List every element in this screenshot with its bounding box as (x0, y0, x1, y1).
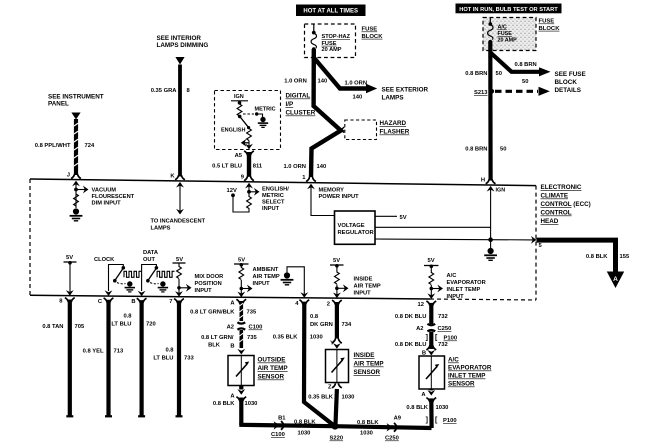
ground (ECC internal) (484, 240, 497, 261)
arrow: a/c evaporator inlet temp input (431, 285, 443, 293)
value label 0.8 PPL/WHT 724 (35, 143, 95, 149)
wire 8 source arrow (175, 57, 184, 65)
wire: 0.8 LT GRN/BLK 735 (below C100, hatched) (239, 330, 243, 348)
wire: 1.0 ORN 140 from fuse to terminal 1 (with hazard flasher tap) (311, 49, 341, 177)
wire 724 source arrow (71, 113, 80, 120)
svg-text:C250: C250 (438, 326, 452, 332)
wire: 0.8 PPL/WHT 724 (hatched) to terminal J (74, 119, 78, 175)
svg-text:50: 50 (496, 71, 502, 77)
value label 0.8 LT BLU 720 (111, 314, 155, 328)
svg-text:0.8: 0.8 (123, 314, 132, 320)
arrow: inside air temp input (337, 284, 349, 292)
svg-text:SEE INTERIOR: SEE INTERIOR (157, 35, 202, 42)
node: ground junction (488, 237, 493, 242)
value label STOP-HAZ FUSE 20 AMP (322, 34, 351, 53)
wire: regulator to terminal 5 output (375, 238, 533, 241)
svg-text:713: 713 (114, 349, 124, 355)
pin A (outside sensor) (230, 389, 246, 401)
label: DIGITAL I/P CLUSTER (286, 93, 316, 117)
value label 0.8 BLK 1030 (outside sensor) (213, 401, 258, 407)
svg-text:1030: 1030 (360, 431, 373, 437)
svg-text:HOT IN RUN, BULB TEST OR START: HOT IN RUN, BULB TEST OR START (459, 7, 558, 13)
feed header HOT AT ALL TIMES (296, 5, 366, 17)
wire: 0.8 DK BLU 732 (below C250) (429, 332, 433, 350)
node mix door (177, 286, 181, 290)
fuse block box (a/c, dashed, shaded) (483, 18, 536, 51)
node: english contact (247, 126, 250, 129)
svg-text:SENSOR: SENSOR (448, 381, 475, 388)
terminal A (ambient) (230, 299, 246, 306)
direction arrow on select wire (241, 139, 249, 147)
value label 0.35 BLK 1030 (pin Z) (308, 395, 354, 401)
resistor on J input (74, 194, 79, 206)
svg-text:]: ] (426, 335, 428, 342)
label FUSE BLOCK (right) (539, 19, 561, 32)
svg-text:732: 732 (438, 342, 448, 348)
svg-text:FUSE: FUSE (362, 27, 378, 33)
svg-text:0.8 BRN: 0.8 BRN (465, 71, 487, 77)
ECC control head box: left border (dashed) (29, 179, 31, 295)
node: switch common (238, 101, 242, 105)
arrow (S213 to details) (539, 87, 550, 96)
wire terminal K to incandescent lamps (double arrow) (176, 185, 184, 215)
svg-text:735: 735 (247, 335, 257, 341)
terminal 4 (295, 300, 309, 307)
svg-text:TO INCANDESCENT: TO INCANDESCENT (151, 219, 206, 225)
ign feed bar (231, 101, 248, 104)
resistor inside air (335, 266, 340, 295)
svg-text:1.0 ORN: 1.0 ORN (283, 164, 306, 170)
value label 0.8 LT BLU 733 (153, 348, 194, 362)
wire: 0.8 LT BLU 733 (177, 301, 181, 418)
label: MIX DOOR POSITION INPUT (195, 274, 224, 294)
svg-text:DETAILS: DETAILS (555, 87, 581, 94)
svg-text:FUSE: FUSE (539, 19, 555, 25)
wire resistor to terminal 9 (248, 186, 250, 197)
arrow: english/metric select input (249, 188, 260, 196)
wire: 0.8 LT GRN/BLK 735 (hatched) (239, 301, 243, 321)
svg-text:]: ] (426, 417, 428, 424)
wire: 1.0 ORN branch to exterior lamps (314, 58, 367, 89)
svg-text:0.8 DK BLU: 0.8 DK BLU (395, 314, 427, 320)
svg-text:1030: 1030 (342, 395, 355, 401)
svg-text:S220: S220 (330, 436, 344, 442)
arrow: mix door position input (179, 284, 192, 292)
svg-text:155: 155 (620, 254, 630, 260)
node evaporator (430, 287, 434, 291)
svg-text:0.8 LT GRN/: 0.8 LT GRN/ (201, 335, 234, 341)
svg-text:POSITION: POSITION (195, 281, 222, 287)
svg-text:SENSOR: SENSOR (258, 374, 285, 381)
fuse A/C FUSE 20 AMP (488, 18, 493, 44)
wire: 0.8 BRN 50 from fuse to terminal H (488, 42, 493, 181)
value label 1.0 ORN 140 (lower) (283, 164, 326, 170)
svg-text:A5: A5 (235, 153, 243, 159)
svg-text:LAMPS: LAMPS (151, 226, 171, 232)
svg-text:CLOCK: CLOCK (94, 257, 115, 263)
svg-text:140: 140 (317, 164, 327, 170)
svg-text:1030: 1030 (298, 431, 311, 437)
svg-text:A/C: A/C (448, 357, 459, 364)
svg-text:ELECTRONIC: ELECTRONIC (541, 184, 582, 191)
svg-text:0.8 BLK: 0.8 BLK (213, 401, 235, 407)
svg-text:EVAPORATOR: EVAPORATOR (448, 365, 492, 372)
svg-text:C250: C250 (385, 436, 399, 442)
svg-text:734: 734 (342, 322, 352, 328)
svg-text:0.8 LT GRN/BLK: 0.8 LT GRN/BLK (190, 310, 235, 316)
svg-text:50: 50 (522, 79, 528, 85)
clock signal source (105, 265, 142, 297)
pin B (evaporator sensor) (422, 345, 436, 356)
svg-text:1030: 1030 (436, 405, 449, 411)
data out signal source (138, 265, 175, 297)
label: INSIDE AIR TEMP SENSOR (354, 352, 384, 376)
svg-text:732: 732 (438, 314, 448, 320)
svg-text:5V: 5V (428, 258, 435, 264)
svg-text:CONTROL (ECC): CONTROL (ECC) (541, 201, 591, 208)
wire: terminal H down to ground node (490, 187, 492, 240)
svg-text:Z: Z (328, 385, 332, 391)
arrow to see fuse block details (539, 67, 551, 76)
svg-text:CLIMATE: CLIMATE (541, 193, 569, 200)
svg-text:IGN: IGN (234, 94, 244, 100)
value label 0.8 BRN 50 (lower) (465, 147, 506, 153)
svg-text:INPUT: INPUT (253, 281, 271, 287)
resistor ambient (239, 265, 244, 294)
5V supply (mix door) (173, 257, 186, 263)
svg-text:AIR TEMP: AIR TEMP (354, 284, 381, 290)
svg-text:DIGITAL: DIGITAL (286, 93, 311, 100)
svg-text:CONTROL: CONTROL (541, 210, 572, 217)
wire: 0.8 BLK 1030 from outside sensor (239, 386, 243, 425)
svg-text:20 AMP: 20 AMP (322, 47, 342, 53)
a/c evaporator inlet temp sensor (419, 356, 445, 389)
wire: regulator to ignition feed (375, 226, 491, 228)
label: SEE FUSE BLOCK DETAILS (555, 71, 586, 94)
label: SEE EXTERIOR LAMPS (382, 87, 429, 102)
svg-text:5V: 5V (333, 258, 340, 264)
arrow to see exterior lamps (366, 84, 377, 93)
5V supply (ambient) (234, 258, 249, 267)
svg-text:A/C: A/C (447, 273, 457, 279)
svg-text:SENSOR: SENSOR (354, 369, 381, 376)
value label 0.8 DK BLU 732 (395, 314, 448, 320)
svg-text:140: 140 (318, 79, 328, 85)
svg-text:INSIDE: INSIDE (354, 352, 375, 359)
wire: 0.8 BLK 1030 from evaporator sensor to splice (429, 389, 434, 428)
node ambient (240, 287, 244, 291)
svg-text:HAZARD: HAZARD (380, 120, 407, 127)
wire: 0.8 BLK 155 (thick, exits right) (537, 240, 616, 272)
connector horns at hazard flasher tap (341, 127, 344, 133)
resistor below english contact (247, 129, 252, 141)
value label 0.5 LT BLU 811 (212, 164, 263, 170)
svg-text:ENGLISH/: ENGLISH/ (262, 187, 289, 193)
svg-text:LT BLU: LT BLU (111, 322, 131, 328)
svg-text:SELECT: SELECT (262, 200, 285, 206)
svg-text:CLUSTER: CLUSTER (286, 110, 316, 117)
arrow at terminal A (237, 292, 245, 298)
value label 0.8 YEL 713 (83, 349, 124, 355)
svg-text:12V: 12V (227, 188, 237, 194)
svg-text:0.8 YEL: 0.8 YEL (83, 349, 104, 355)
svg-text:AIR TEMP: AIR TEMP (258, 365, 288, 372)
arrow at terminal 2 (333, 293, 341, 299)
wire metric contact to ground (257, 114, 263, 117)
5V supply (evaporator) (424, 258, 439, 268)
svg-text:0.8 BRN: 0.8 BRN (465, 147, 487, 153)
resistor on english/metric select input (247, 197, 252, 209)
svg-text:BLOCK: BLOCK (539, 26, 561, 32)
svg-text:SEE EXTERIOR: SEE EXTERIOR (382, 87, 429, 94)
label FUSE BLOCK (left) (362, 27, 384, 40)
svg-text:5V: 5V (66, 255, 73, 261)
svg-text:STOP-HAZ: STOP-HAZ (322, 34, 351, 40)
svg-text:A/C: A/C (498, 25, 507, 31)
svg-text:C100: C100 (249, 325, 263, 331)
svg-text:VOLTAGE: VOLTAGE (338, 223, 365, 229)
connector C100 cavity A2 (in-line) (227, 322, 263, 330)
wire 12V hook to select resistor (233, 194, 249, 212)
value label 0.8 BLK 155 (586, 254, 630, 260)
svg-text:5V: 5V (238, 258, 245, 264)
arrow at terminal 12 (427, 293, 435, 299)
svg-text:S213: S213 (474, 90, 488, 96)
svg-text:1030: 1030 (310, 335, 323, 341)
svg-text:SEE INSTRUMENT: SEE INSTRUMENT (48, 94, 104, 101)
wire: 0.35 GRA 8 to terminal K (178, 65, 182, 177)
label: OUTSIDE AIR TEMP SENSOR (258, 357, 288, 381)
splice S220 (330, 423, 344, 442)
value label 0.8 DK GRN 734 (310, 314, 352, 328)
label: AMBIENT AIR TEMP INPUT (253, 267, 280, 287)
svg-text:0.8 TAN: 0.8 TAN (42, 324, 63, 330)
svg-text:BLK: BLK (208, 343, 221, 349)
svg-text:AIR TEMP: AIR TEMP (253, 274, 280, 280)
terminal H (481, 178, 496, 192)
english/metric switch assembly box (dashed) (215, 91, 281, 150)
svg-text:LAMPS: LAMPS (382, 95, 404, 102)
node: switch pivot (238, 115, 242, 119)
value label 0.8 LT GRN/BLK 735 (190, 310, 257, 316)
terminal 2 (327, 300, 342, 307)
svg-text:DIM INPUT: DIM INPUT (92, 201, 122, 207)
connector C250 cavity A2 (in-line) (416, 324, 451, 332)
svg-text:724: 724 (85, 143, 95, 149)
value label 0.35 GRA 8 (151, 88, 191, 94)
wire end foot (713) (105, 415, 112, 417)
svg-text:INPUT: INPUT (354, 291, 372, 297)
svg-text:H: H (481, 178, 485, 184)
svg-text:0.8 PPL/WHT: 0.8 PPL/WHT (35, 143, 71, 149)
label: TO INCANDESCENT LAMPS (151, 219, 206, 232)
terminal 8 (59, 298, 74, 305)
svg-text:ENGLISH: ENGLISH (221, 128, 245, 134)
pin Y (inside sensor) (330, 339, 342, 349)
svg-text:0.8 BLK: 0.8 BLK (357, 420, 379, 426)
svg-text:REGULATOR: REGULATOR (338, 230, 375, 236)
terminal 7 (169, 299, 184, 305)
label: A/C EVAPORATOR INLET TEMP SENSOR (448, 357, 492, 388)
hazard flasher box (dashed) (345, 120, 377, 140)
svg-text:P100: P100 (444, 336, 458, 342)
terminal 1 (302, 175, 316, 189)
wire end foot (720) (138, 415, 145, 417)
arrow at terminal 7 (175, 291, 183, 297)
wire end foot (705) (66, 415, 73, 417)
wire terminal 1 to voltage regulator (311, 187, 335, 216)
wire: 0.8 BLK 1030 ground bus (bottom) (239, 425, 431, 428)
svg-text:B: B (131, 299, 135, 305)
svg-text:0.35 GRA: 0.35 GRA (151, 88, 178, 94)
node select input (247, 190, 251, 194)
arrow at terminal 5 exit (531, 236, 537, 244)
voltage regulator U1 (335, 211, 376, 244)
svg-text:0.35 BLK: 0.35 BLK (273, 335, 299, 341)
svg-text:PANEL: PANEL (48, 101, 69, 108)
connector C250 cavity A9 (in-line, bus) (385, 416, 402, 442)
svg-text:705: 705 (75, 324, 85, 330)
terminal J (67, 172, 81, 186)
svg-text:7: 7 (169, 299, 172, 305)
value label A/C FUSE 20 AMP (498, 25, 518, 44)
fuse block box (stop-haz, dashed) (305, 24, 356, 58)
svg-text:INLET TEMP: INLET TEMP (448, 373, 485, 380)
wire: 0.8 YEL 713 (106, 300, 110, 417)
svg-text:AMBIENT: AMBIENT (253, 267, 279, 273)
wire: regulator 5V output (375, 215, 397, 217)
ECC control head box: bottom border (30, 295, 430, 299)
svg-text:IGN: IGN (496, 188, 506, 194)
svg-text:SEE FUSE: SEE FUSE (555, 71, 586, 78)
svg-text:A2: A2 (227, 325, 234, 331)
svg-text:0.8: 0.8 (165, 348, 174, 354)
svg-text:I/P: I/P (286, 101, 294, 108)
value label 0.8 BRN (branch) (515, 62, 537, 85)
svg-text:MEMORY: MEMORY (319, 188, 345, 194)
svg-text:LT BLU: LT BLU (153, 356, 173, 362)
wire: 0.8 BRN branch to fuse block details (490, 53, 539, 72)
ground return hook to terminal 4 (281, 267, 309, 298)
terminal 12 (418, 301, 437, 308)
svg-text:A2: A2 (416, 326, 423, 332)
svg-text:0.8: 0.8 (310, 314, 319, 320)
svg-text:0.8 DK BLU: 0.8 DK BLU (395, 342, 427, 348)
resistor in switch leg (237, 104, 242, 116)
value label 0.8 BLK 1030 (right bus) (357, 420, 379, 437)
svg-text:INPUT: INPUT (447, 294, 465, 300)
svg-text:FUSE: FUSE (498, 31, 513, 37)
svg-text:DK GRN: DK GRN (310, 322, 333, 328)
ECC control head box: top border (30, 179, 536, 186)
resistor evaporator (429, 266, 434, 295)
svg-text:12: 12 (418, 302, 424, 308)
svg-text:B: B (230, 344, 234, 350)
connector skirt at assembly exit (244, 151, 254, 156)
label: SEE INSTRUMENT PANEL (48, 94, 104, 108)
resistor mix door (177, 263, 182, 293)
wire from english leg to box edge (248, 141, 250, 150)
svg-text:0.8 BRN: 0.8 BRN (515, 62, 537, 68)
svg-text:0.5 LT BLU: 0.5 LT BLU (212, 164, 242, 170)
connector P100 pass-through (upper) (426, 335, 457, 342)
svg-text:50: 50 (500, 147, 506, 153)
svg-text:733: 733 (184, 356, 194, 362)
wire end foot (733) (176, 415, 183, 417)
value label 0.8 BLK 1030 (evap) (406, 405, 448, 411)
value label 0.8 DK BLU 732 (lower) (395, 342, 448, 348)
svg-text:0.8 BLK: 0.8 BLK (586, 254, 608, 260)
svg-text:5V: 5V (400, 215, 407, 221)
feed header HOT IN RUN, BULB TEST OR START (456, 4, 562, 14)
svg-text:140: 140 (353, 95, 363, 101)
arrow A (to ground distribution) (607, 272, 624, 289)
svg-text:C100: C100 (271, 432, 285, 438)
label: VACUUM FLOURESCENT DIM INPUT (92, 188, 135, 207)
svg-text:BLOCK: BLOCK (555, 79, 578, 86)
svg-text:INPUT: INPUT (262, 206, 280, 212)
connector P100 pass-through (lower) (426, 417, 457, 424)
svg-text:1.0 ORN: 1.0 ORN (345, 81, 368, 87)
svg-text:A: A (613, 276, 618, 283)
label: ELECTRONIC CLIMATE CONTROL (ECC) CONTROL HEAD (541, 184, 591, 225)
svg-text:LAMPS DIMMING: LAMPS DIMMING (157, 42, 209, 49)
arrow at assembly exit (245, 144, 253, 150)
svg-text:0.8 BLK: 0.8 BLK (294, 420, 316, 426)
pin B (outside sensor) (230, 344, 245, 355)
label: A/C EVAPORATOR INLET TEMP INPUT (447, 273, 486, 300)
terminal 9 (241, 174, 254, 188)
svg-text:A9: A9 (394, 416, 402, 422)
value label 0.8 BRN 50 (upper) (465, 71, 502, 77)
dashed wire from S213 to fuse block details (495, 90, 538, 93)
5V supply (terminal 8) (64, 255, 77, 265)
svg-text:INLET TEMP: INLET TEMP (447, 287, 481, 293)
dashed link to metric contact (243, 113, 254, 115)
node 12V (231, 193, 235, 197)
value label 0.8 BLK 1030 (left bus) (294, 420, 316, 437)
wire: 0.5 LT BLU 811 to terminal 9 (247, 152, 251, 177)
ECC control head box: right border (dashed) (535, 186, 537, 300)
svg-text:FLASHER: FLASHER (380, 129, 410, 136)
svg-text:BLOCK: BLOCK (362, 34, 384, 40)
label: SEE INTERIOR LAMPS DIMMING (157, 35, 209, 49)
svg-text:P100: P100 (443, 418, 457, 424)
svg-text:J: J (67, 172, 70, 178)
svg-text:POWER INPUT: POWER INPUT (319, 194, 360, 200)
ground (metric) (258, 117, 268, 128)
pin Z (inside sensor) (328, 383, 342, 390)
value label 1.0 ORN 140 (upper) (284, 79, 327, 85)
label DATA OUT (143, 250, 158, 263)
label: INSIDE AIR TEMP INPUT (354, 277, 381, 297)
terminal B (131, 298, 146, 305)
terminal C (98, 298, 114, 305)
svg-text:0.8 BLK: 0.8 BLK (406, 405, 428, 411)
svg-text:INPUT: INPUT (195, 288, 213, 294)
svg-text:FLOURESCENT: FLOURESCENT (92, 194, 135, 200)
node: metric contact (255, 112, 258, 115)
label: ENGLISH/ METRIC SELECT INPUT (262, 187, 289, 213)
switch arm to ENGLISH contact (240, 116, 248, 126)
connector C100 cavity B1 (in-line, bus) (271, 416, 286, 439)
svg-text:0.35 BLK: 0.35 BLK (308, 395, 334, 401)
svg-text:5V: 5V (176, 257, 183, 263)
svg-text:B1: B1 (278, 416, 286, 422)
pin A (evaporator sensor) (421, 390, 436, 402)
wire: 0.8 DK GRN 734 (335, 302, 339, 339)
value label 0.8 LT GRN/ BLK 735 (201, 335, 257, 349)
